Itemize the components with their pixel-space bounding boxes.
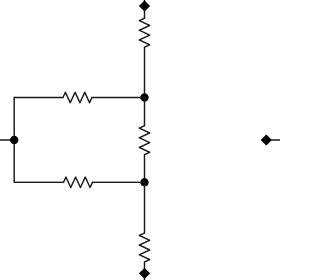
wire left rail (vertical)	[13, 98, 15, 183]
port P1 (top terminal diamond)	[140, 0, 150, 11]
node B (junction dot on left rail)	[10, 136, 18, 144]
wire node C to R4	[93, 181, 145, 183]
resistor R3 (middle vertical)	[139, 126, 149, 155]
wire node A to R3	[144, 98, 146, 126]
wire R4 to left rail	[14, 181, 63, 183]
wire from R1 to node A	[144, 47, 146, 97]
resistor R2 (upper horizontal)	[63, 92, 92, 102]
node A (junction dot)	[140, 93, 148, 101]
resistor R1 (top vertical)	[139, 18, 149, 47]
wire left stub to node B	[0, 139, 14, 141]
port P3 (right terminal diamond)	[261, 135, 280, 145]
wire R5 to P2	[144, 262, 146, 269]
wire R2 to left rail	[14, 97, 63, 99]
wire from P1 to R1	[144, 11, 146, 18]
wire node C to R5	[144, 182, 146, 233]
node C (junction dot)	[140, 178, 148, 186]
wire node A to R2	[92, 97, 145, 99]
resistor R4 (lower horizontal)	[64, 177, 93, 187]
wire R3 to node C	[144, 155, 146, 183]
port P2 (bottom terminal diamond)	[140, 269, 150, 280]
resistor R5 (bottom vertical)	[139, 233, 149, 262]
